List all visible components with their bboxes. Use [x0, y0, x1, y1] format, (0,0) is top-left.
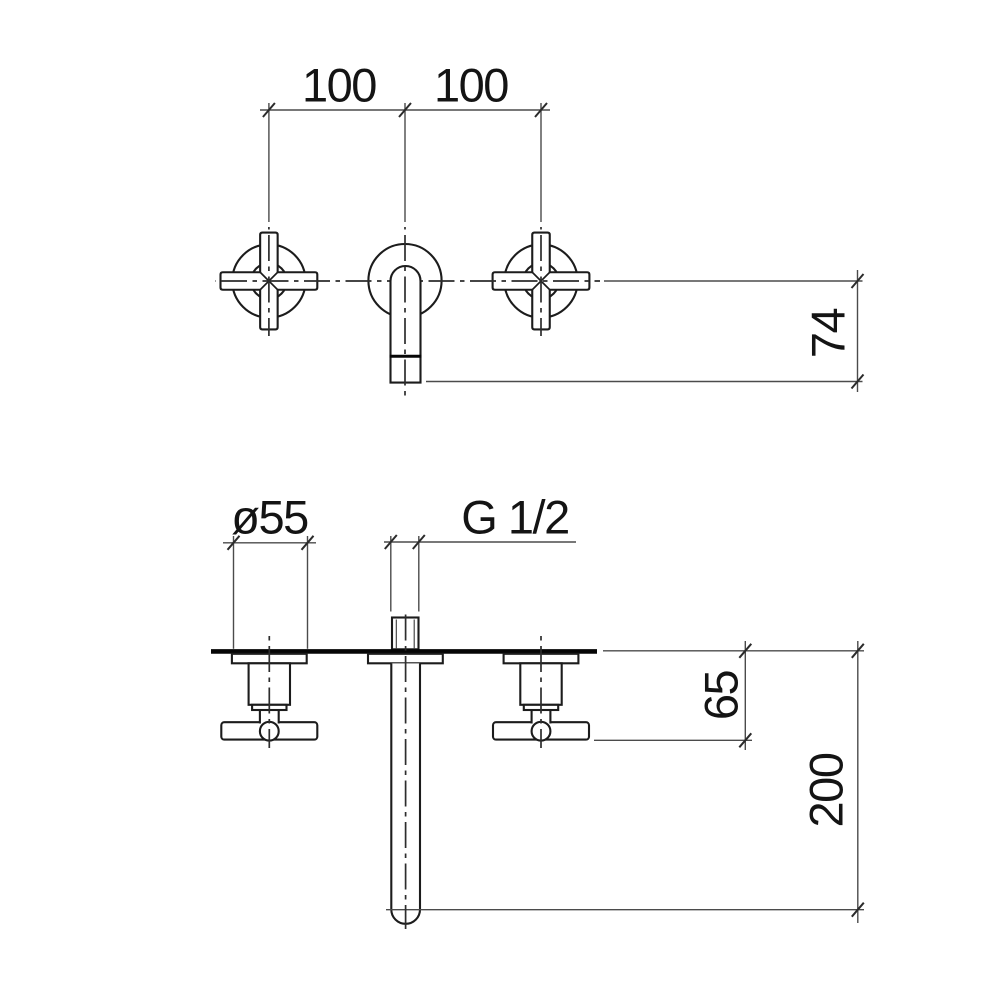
svg-text:ø55: ø55	[231, 491, 308, 544]
svg-text:100: 100	[302, 58, 376, 111]
svg-text:65: 65	[695, 671, 748, 721]
svg-text:200: 200	[800, 753, 853, 827]
svg-text:74: 74	[801, 309, 854, 359]
svg-text:G 1/2: G 1/2	[461, 491, 568, 544]
svg-text:100: 100	[434, 58, 508, 111]
